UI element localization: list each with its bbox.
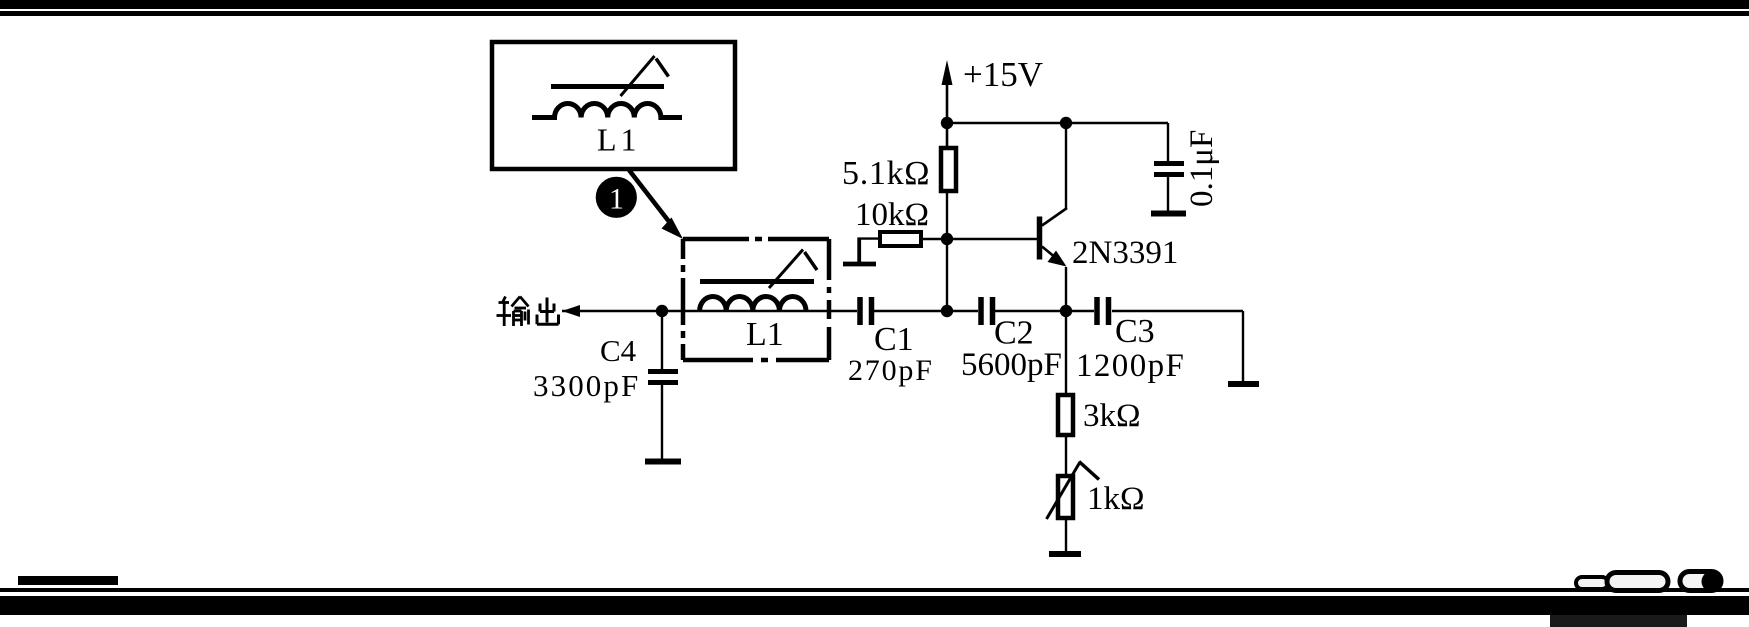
svg-text:3kΩ: 3kΩ bbox=[1083, 398, 1141, 434]
svg-text:5600pF: 5600pF bbox=[961, 347, 1062, 383]
svg-text:10kΩ: 10kΩ bbox=[855, 197, 929, 233]
svg-text:L1: L1 bbox=[597, 122, 637, 158]
svg-text:270pF: 270pF bbox=[848, 354, 934, 387]
svg-text:1: 1 bbox=[609, 183, 624, 216]
svg-text:C1: C1 bbox=[874, 321, 914, 358]
svg-text:+15V: +15V bbox=[963, 55, 1043, 94]
svg-text:C2: C2 bbox=[994, 315, 1034, 352]
svg-text:2N3391: 2N3391 bbox=[1072, 235, 1178, 271]
svg-text:0.1μF: 0.1μF bbox=[1184, 130, 1220, 207]
svg-text:L1: L1 bbox=[746, 316, 784, 353]
svg-text:3300pF: 3300pF bbox=[533, 368, 640, 403]
svg-text:1kΩ: 1kΩ bbox=[1087, 481, 1145, 517]
svg-text:C3: C3 bbox=[1115, 313, 1155, 350]
svg-text:1200pF: 1200pF bbox=[1076, 348, 1185, 384]
svg-text:5.1kΩ: 5.1kΩ bbox=[842, 155, 930, 192]
svg-text:C4: C4 bbox=[600, 333, 637, 368]
